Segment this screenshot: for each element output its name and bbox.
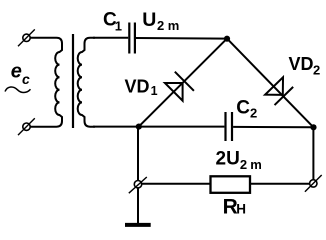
transformer T1 core (72, 34, 74, 128)
capacitor C1 (129, 23, 135, 54)
diode VD1 (164, 72, 194, 102)
wire secondary top to C1 (93, 37, 128, 39)
node B (middle-left junction dot) (136, 124, 142, 130)
wire diagonal node A to node B (VD1 branch) (139, 39, 227, 127)
svg-text:VD: VD (125, 76, 150, 96)
svg-text:Н: Н (236, 201, 246, 216)
ground (125, 223, 151, 227)
capacitor C2 (226, 112, 233, 141)
svg-text:C: C (236, 97, 250, 118)
transformer T1 secondary winding (78, 38, 95, 127)
wire resistor to terminal X3 (142, 183, 211, 185)
terminal X3 (bottom-middle, circle with slash) (129, 177, 147, 193)
wire node B down to terminal X3 (137, 127, 139, 181)
wire diagonal node A to node C (VD2 branch) (227, 39, 314, 128)
svg-text:m: m (250, 157, 262, 172)
transformer T1 primary winding (30, 38, 62, 127)
diode VD2 (265, 77, 293, 105)
wire secondary bottom to node B (93, 126, 139, 128)
svg-text:c: c (22, 71, 30, 87)
svg-text:VD: VD (289, 54, 314, 74)
svg-text:m: m (168, 18, 180, 33)
svg-text:2: 2 (240, 157, 247, 172)
terminal X4 (bottom-right, circle with slash) (305, 175, 322, 192)
node A (top junction dot) (224, 36, 230, 42)
svg-text:2: 2 (250, 106, 257, 121)
terminal X1 (top-left input, circle with slash) (18, 29, 35, 46)
resistor RH (211, 176, 251, 193)
AC tilde symbol under ec (5, 87, 31, 93)
svg-text:U: U (142, 9, 156, 31)
wire C2 to node C (233, 126, 313, 128)
svg-text:2: 2 (313, 63, 320, 78)
svg-text:1: 1 (151, 84, 158, 98)
svg-text:1: 1 (115, 19, 122, 34)
terminal X2 (bottom-left input, circle with slash) (18, 118, 35, 135)
wire node C down to terminal X4 (312, 127, 314, 180)
wire terminal X3 to ground (137, 188, 139, 225)
svg-text:2: 2 (157, 18, 164, 33)
node C (right junction dot) (310, 124, 316, 130)
svg-text:e: e (11, 61, 22, 83)
wire C1 to node A (136, 37, 227, 40)
wire node B to C2 (139, 126, 225, 128)
wire terminal X4 to resistor (250, 183, 310, 185)
svg-text:2U: 2U (216, 149, 240, 170)
